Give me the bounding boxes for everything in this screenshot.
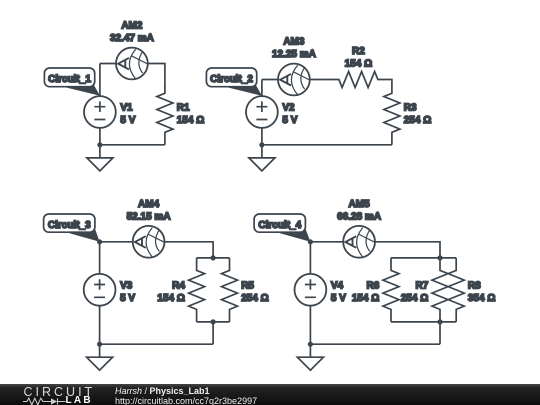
ammeter AM2 [116, 48, 148, 80]
wire V2 bottom [261, 128, 263, 145]
svg-text:R5: R5 [241, 280, 254, 291]
wire bottom bar [197, 321, 230, 323]
svg-text:12.25 mA: 12.25 mA [272, 49, 316, 60]
resistor R8 [448, 258, 464, 322]
node top bar dot [211, 255, 216, 260]
svg-text:254 Ω: 254 Ω [404, 115, 431, 126]
wire corner to AM2 left [100, 63, 116, 65]
wire corner to AM5 left [310, 241, 343, 243]
wire AM3 right to R2 [310, 79, 327, 81]
ground [87, 145, 113, 171]
ground [249, 145, 275, 171]
svg-text:254 Ω: 254 Ω [401, 293, 428, 304]
svg-text:Circuit_4: Circuit_4 [258, 220, 301, 231]
svg-text:354 Ω: 354 Ω [468, 293, 495, 304]
svg-text:V4: V4 [331, 280, 344, 291]
node junction dot [259, 142, 264, 147]
wire AM5 right to parallel top [375, 242, 440, 258]
node bottom bar dot [437, 319, 442, 324]
label plate Circuit_4 [254, 214, 310, 242]
svg-text:154 Ω: 154 Ω [345, 59, 372, 70]
svg-text:154 Ω: 154 Ω [157, 293, 184, 304]
svg-text:5 V: 5 V [120, 293, 135, 304]
footer bar [0, 384, 540, 405]
wire V2 top to corner [261, 80, 263, 97]
wire bottom run [100, 343, 214, 345]
wire bottom run [310, 343, 440, 345]
svg-text:52.15 mA: 52.15 mA [127, 211, 171, 222]
ground [297, 344, 323, 370]
svg-text:V1: V1 [120, 103, 133, 114]
ammeter AM5 [343, 226, 375, 258]
label plate Circuit_3 [44, 214, 100, 242]
node junction dot [97, 342, 102, 347]
node junction dot [97, 142, 102, 147]
node junction dot [308, 342, 313, 347]
svg-text:R8: R8 [468, 280, 481, 291]
wire parallel bottom stub [439, 322, 441, 344]
resistor R1 [157, 81, 173, 145]
ground [87, 344, 113, 370]
voltage source V4 [295, 274, 327, 306]
logo resistor + diode line [23, 397, 69, 405]
resistor R5 [222, 258, 238, 322]
svg-text:AM5: AM5 [349, 199, 371, 210]
node top bar dot [437, 255, 442, 260]
svg-text:Circuit_1: Circuit_1 [48, 74, 91, 85]
wire V3 top to corner [99, 242, 101, 274]
wire top bar [391, 257, 456, 259]
credit line [115, 386, 210, 396]
resistor R6 [383, 258, 399, 322]
svg-text:254 Ω: 254 Ω [241, 293, 268, 304]
url line [115, 396, 257, 405]
voltage source V3 [84, 274, 116, 306]
wire V4 bottom [309, 306, 311, 345]
svg-text:AM2: AM2 [121, 21, 143, 32]
resistor R7 [432, 258, 448, 322]
wire corner to AM4 left [100, 241, 133, 243]
svg-text:154 Ω: 154 Ω [352, 293, 379, 304]
wire AM2 right to R1 top corner [148, 64, 165, 81]
wire R2 right corner down to R3 [390, 80, 392, 81]
svg-text:66.28 mA: 66.28 mA [337, 211, 381, 222]
svg-text:R1: R1 [177, 103, 190, 114]
svg-text:R7: R7 [416, 280, 429, 291]
ammeter AM4 [133, 226, 165, 258]
ammeter AM3 [278, 64, 310, 96]
wire top bar [197, 257, 230, 259]
svg-text:Circuit_2: Circuit_2 [210, 74, 253, 85]
voltage source V2 [246, 96, 278, 128]
logo CIRCUIT [24, 385, 96, 399]
node corner dot [97, 239, 102, 244]
node corner dot [308, 239, 313, 244]
logo LAB [66, 395, 93, 405]
svg-text:R4: R4 [172, 280, 185, 291]
svg-text:5 V: 5 V [331, 293, 346, 304]
label plate Circuit_2 [206, 68, 262, 96]
svg-text:V3: V3 [120, 280, 133, 291]
wire V1 top to corner [99, 64, 101, 97]
resistor R2 [326, 72, 390, 88]
resistor R3 [384, 81, 400, 145]
wire V1 bottom [99, 128, 101, 145]
node bottom bar dot [211, 319, 216, 324]
wire corner to AM3 left [262, 79, 278, 81]
svg-text:Circuit_3: Circuit_3 [48, 220, 91, 231]
svg-text:5 V: 5 V [120, 115, 135, 126]
wire V4 top to corner [309, 242, 311, 274]
voltage source V1 [84, 96, 116, 128]
wire parallel bottom stub [212, 322, 214, 344]
svg-text:32.47 mA: 32.47 mA [110, 33, 154, 44]
wire bottom run [262, 144, 392, 146]
resistor R4 [189, 258, 205, 322]
wire AM4 right to parallel top [165, 242, 214, 258]
label plate Circuit_1 [44, 68, 100, 96]
svg-text:R6: R6 [367, 280, 380, 291]
wire V3 bottom [99, 306, 101, 345]
svg-text:AM4: AM4 [138, 199, 160, 210]
svg-text:154 Ω: 154 Ω [177, 115, 204, 126]
svg-text:AM3: AM3 [283, 37, 305, 48]
svg-text:5 V: 5 V [282, 115, 297, 126]
svg-text:R3: R3 [404, 103, 417, 114]
svg-text:R2: R2 [352, 46, 365, 57]
wire bottom run [100, 144, 165, 146]
wire bottom bar [391, 321, 456, 323]
svg-text:V2: V2 [282, 103, 295, 114]
